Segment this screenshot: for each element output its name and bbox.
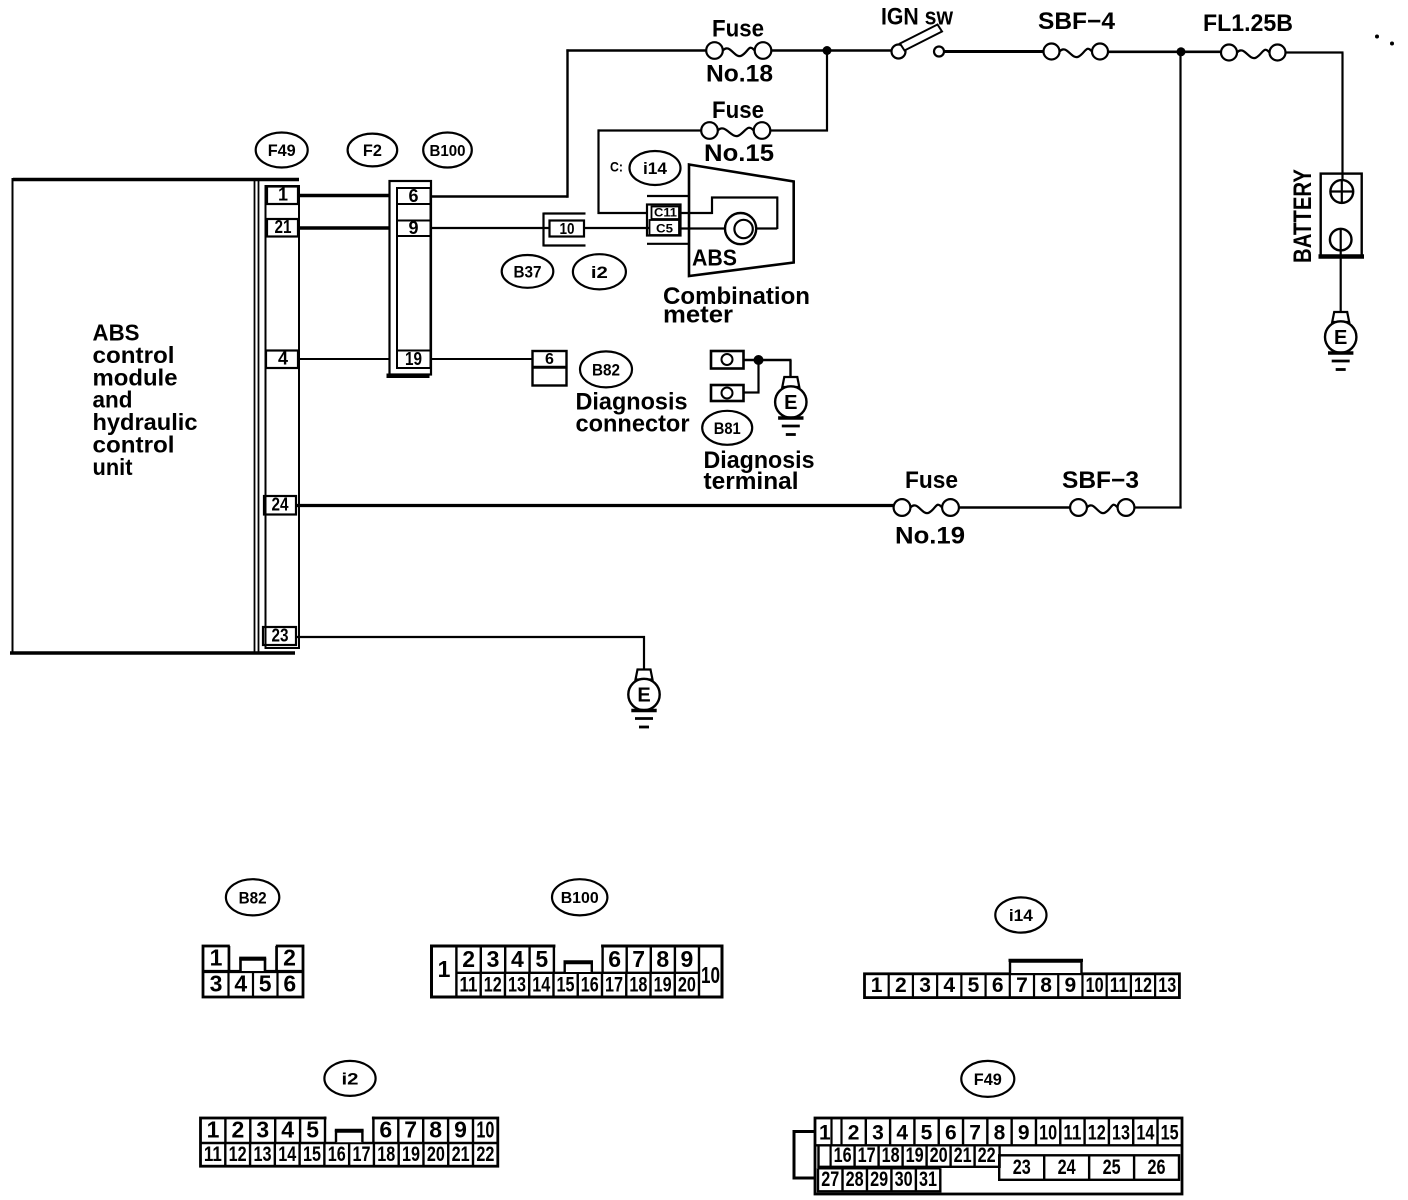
wire FL1.25B to battery xyxy=(1286,53,1344,181)
svg-text:9: 9 xyxy=(454,1117,467,1143)
connector label B37 xyxy=(502,255,554,288)
svg-text:2: 2 xyxy=(848,1122,860,1145)
svg-text:Fuse: Fuse xyxy=(712,16,764,43)
wire diagnosis terminal to ground xyxy=(744,360,792,394)
svg-text:terminal: terminal xyxy=(704,468,799,495)
svg-text:No.18: No.18 xyxy=(706,61,773,88)
connector label B82 (pinout) xyxy=(226,879,279,915)
svg-text:16: 16 xyxy=(834,1144,852,1167)
svg-text:7: 7 xyxy=(632,946,645,972)
svg-text:unit: unit xyxy=(93,454,133,480)
svg-text:22: 22 xyxy=(978,1144,996,1167)
svg-text:F49: F49 xyxy=(974,1070,1002,1089)
svg-text:23: 23 xyxy=(1013,1156,1031,1179)
svg-text:12: 12 xyxy=(484,974,502,997)
connector label i2 (joint) xyxy=(573,254,626,289)
svg-text:10: 10 xyxy=(1086,974,1104,997)
svg-text:connector: connector xyxy=(576,411,690,438)
meter connector box C11/C5 xyxy=(647,205,681,236)
svg-text:3: 3 xyxy=(256,1117,269,1143)
connector label B100 xyxy=(423,133,472,168)
pin 1 (F49) xyxy=(267,185,298,205)
ABS warning lamp xyxy=(725,213,756,244)
svg-text:5: 5 xyxy=(306,1117,319,1143)
pin 4 (F49) xyxy=(266,349,298,369)
svg-text:20: 20 xyxy=(427,1143,445,1166)
svg-text:11: 11 xyxy=(1063,1122,1081,1145)
svg-text:20: 20 xyxy=(678,974,696,997)
connector label B81 xyxy=(702,411,752,445)
label Fuse No.19 xyxy=(895,467,965,550)
svg-text:12: 12 xyxy=(1088,1122,1106,1145)
svg-text:13: 13 xyxy=(253,1143,271,1166)
svg-text:8: 8 xyxy=(656,946,669,972)
wire fuse19 to SBF-3 xyxy=(959,506,1072,508)
svg-text:8: 8 xyxy=(1040,974,1052,997)
svg-text:2: 2 xyxy=(895,974,907,997)
fuse FL1.25B symbol xyxy=(1221,45,1286,61)
svg-text:5: 5 xyxy=(259,971,272,997)
svg-text:1: 1 xyxy=(438,956,451,982)
label Combination meter xyxy=(663,283,810,329)
svg-text:20: 20 xyxy=(930,1144,948,1167)
svg-text:6: 6 xyxy=(945,1122,957,1145)
svg-text:8: 8 xyxy=(429,1117,442,1143)
connector label F49 xyxy=(256,133,308,168)
wire B100 pin6 to top line xyxy=(431,49,568,197)
ABS control module and hydraulic control unit box xyxy=(10,178,299,654)
svg-text:19: 19 xyxy=(654,974,672,997)
svg-text:16: 16 xyxy=(581,974,599,997)
svg-text:21: 21 xyxy=(954,1144,972,1167)
svg-text:9: 9 xyxy=(681,946,694,972)
svg-text:24: 24 xyxy=(1058,1156,1076,1179)
svg-text:E: E xyxy=(637,685,650,707)
svg-text:6: 6 xyxy=(545,351,554,368)
svg-text:4: 4 xyxy=(896,1122,908,1145)
wire SBF-4 to FL1.25B xyxy=(1108,50,1222,53)
svg-text:C5: C5 xyxy=(656,222,673,236)
battery positive terminal xyxy=(1330,180,1353,203)
connector label B100 (pinout) xyxy=(552,879,607,915)
diagnosis terminal lower contact xyxy=(711,385,744,401)
svg-text:19: 19 xyxy=(405,349,422,369)
svg-text:13: 13 xyxy=(1158,974,1176,997)
ground E battery xyxy=(1325,312,1356,370)
wire top line left segment xyxy=(566,49,706,52)
svg-text:11: 11 xyxy=(1110,974,1128,997)
svg-text:SBF−4: SBF−4 xyxy=(1038,8,1116,35)
fuse No.19 symbol xyxy=(894,499,959,516)
connector label F2 xyxy=(348,134,398,167)
connector F49 strip xyxy=(266,186,300,648)
IGN switch xyxy=(892,25,945,59)
svg-text:11: 11 xyxy=(204,1143,222,1166)
ABS control module text xyxy=(93,320,198,480)
svg-text:E: E xyxy=(1334,327,1347,349)
svg-text:7: 7 xyxy=(969,1122,981,1145)
svg-text:8: 8 xyxy=(994,1122,1006,1145)
svg-text:9: 9 xyxy=(408,218,418,238)
battery box xyxy=(1319,174,1365,258)
svg-text:13: 13 xyxy=(508,974,526,997)
svg-text:15: 15 xyxy=(303,1143,321,1166)
fuse No.18 symbol xyxy=(706,42,771,59)
svg-text:18: 18 xyxy=(882,1144,900,1167)
svg-text:C:: C: xyxy=(610,159,623,175)
svg-text:22: 22 xyxy=(476,1143,494,1166)
svg-text:4: 4 xyxy=(278,349,288,369)
wire F49 pin21 to B100 pin9 xyxy=(298,226,390,229)
label Fuse No.18 xyxy=(706,16,773,88)
svg-text:4: 4 xyxy=(511,946,524,972)
combination meter body xyxy=(689,165,794,277)
connector B82 pinout xyxy=(203,944,303,997)
svg-text:14: 14 xyxy=(1136,1122,1154,1145)
svg-text:13: 13 xyxy=(1112,1122,1130,1145)
svg-text:1: 1 xyxy=(207,1117,220,1143)
svg-text:10: 10 xyxy=(476,1117,494,1143)
ground E module xyxy=(628,670,659,728)
connector label i14 (pinout) xyxy=(995,897,1046,932)
svg-text:2: 2 xyxy=(283,945,296,971)
svg-text:16: 16 xyxy=(328,1143,346,1166)
wire C5 into meter lamp xyxy=(680,227,726,229)
diagnosis terminal upper contact xyxy=(711,351,744,369)
svg-text:14: 14 xyxy=(532,974,550,997)
wire junction down to fuse No.15 xyxy=(826,51,828,132)
svg-text:BATTERY: BATTERY xyxy=(1289,169,1317,263)
wire fuse15 to meter C11 xyxy=(598,129,703,214)
svg-text:C11: C11 xyxy=(654,206,677,220)
svg-text:10: 10 xyxy=(560,221,575,238)
svg-text:25: 25 xyxy=(1103,1156,1121,1179)
svg-text:7: 7 xyxy=(404,1117,417,1143)
connector F2/B100 strip xyxy=(387,181,432,376)
svg-text:15: 15 xyxy=(557,974,575,997)
svg-text:B37: B37 xyxy=(514,263,542,282)
connector label B82 (diagram) xyxy=(580,351,632,387)
connector label i2 (pinout) xyxy=(324,1061,375,1096)
svg-text:17: 17 xyxy=(353,1143,371,1166)
label Diagnosis connector xyxy=(576,389,690,438)
svg-text:11: 11 xyxy=(460,974,478,997)
fuse SBF-4 symbol xyxy=(1044,44,1109,60)
svg-text:6: 6 xyxy=(408,186,418,206)
svg-text:3: 3 xyxy=(919,974,931,997)
svg-text:No.19: No.19 xyxy=(895,523,965,550)
svg-text:21: 21 xyxy=(275,217,292,237)
connector B100 pinout xyxy=(432,946,723,997)
svg-text:6: 6 xyxy=(283,971,296,997)
svg-text:Fuse: Fuse xyxy=(712,97,764,124)
joint box 10 shroud xyxy=(544,213,586,247)
junction node main feed xyxy=(1177,47,1186,56)
ground E diagnosis terminal xyxy=(775,377,806,435)
svg-text:IGN sw: IGN sw xyxy=(881,4,953,31)
svg-text:FL1.25B: FL1.25B xyxy=(1203,10,1293,37)
wire C11 into meter lamp circuit xyxy=(680,197,778,230)
svg-text:21: 21 xyxy=(452,1143,470,1166)
pin 23 (F49) xyxy=(263,626,296,646)
svg-text:1: 1 xyxy=(871,974,883,997)
svg-text:6: 6 xyxy=(379,1117,392,1143)
wire fuse15 right segment xyxy=(770,129,828,131)
fuse SBF-3 symbol xyxy=(1070,499,1134,516)
svg-text:meter: meter xyxy=(663,302,733,329)
svg-text:6: 6 xyxy=(992,974,1004,997)
junction node fuse18/fuse15 xyxy=(823,46,832,55)
pin 21 (F49) xyxy=(267,217,298,237)
svg-text:ABS: ABS xyxy=(692,245,737,271)
svg-text:B100: B100 xyxy=(561,890,599,907)
wire F49 pin4 to B100 pin19 xyxy=(298,358,390,360)
svg-text:15: 15 xyxy=(1161,1122,1179,1145)
svg-text:E: E xyxy=(784,392,797,414)
wire B100 pin9 to joint 10 xyxy=(431,227,551,229)
connector label F49 (pinout) xyxy=(961,1061,1014,1097)
svg-text:12: 12 xyxy=(1134,974,1152,997)
svg-text:1: 1 xyxy=(210,945,223,971)
svg-text:19: 19 xyxy=(402,1143,420,1166)
label Fuse No.15 xyxy=(704,97,774,167)
svg-text:SBF−3: SBF−3 xyxy=(1062,467,1139,494)
svg-text:26: 26 xyxy=(1148,1156,1166,1179)
svg-text:10: 10 xyxy=(1039,1122,1057,1145)
svg-text:4: 4 xyxy=(943,974,955,997)
connector F49 pinout xyxy=(815,1118,1182,1194)
svg-text:Fuse: Fuse xyxy=(905,467,958,494)
svg-text:17: 17 xyxy=(858,1144,876,1167)
wire F49 pin23 to ground xyxy=(296,636,645,670)
label Diagnosis terminal xyxy=(704,447,815,495)
svg-text:4: 4 xyxy=(234,971,247,997)
svg-text:5: 5 xyxy=(535,946,548,972)
diagnosis connector box pin 6 xyxy=(533,351,567,386)
svg-text:30: 30 xyxy=(895,1168,913,1191)
connector F49 pinout left bracket xyxy=(794,1132,816,1179)
svg-text:12: 12 xyxy=(229,1143,247,1166)
wire IGN switch to SBF-4 xyxy=(944,50,1044,53)
svg-text:7: 7 xyxy=(1016,974,1028,997)
pin 24 (F49) xyxy=(264,495,296,515)
svg-text:9: 9 xyxy=(1065,974,1077,997)
svg-text:9: 9 xyxy=(1018,1122,1030,1145)
connector i14 pinout xyxy=(865,974,1180,998)
fuse No.15 symbol xyxy=(701,122,770,139)
wire battery to ground xyxy=(1340,250,1342,313)
svg-text:i2: i2 xyxy=(591,263,608,282)
svg-text:B82: B82 xyxy=(592,361,620,380)
connector F49 pinout row 16-22 xyxy=(819,1144,1000,1167)
svg-text:F2: F2 xyxy=(363,141,382,160)
wire joint 10 to meter C5 xyxy=(584,227,650,229)
svg-text:27: 27 xyxy=(821,1168,839,1191)
svg-text:1: 1 xyxy=(278,185,288,205)
wire SBF-3 to main feed node xyxy=(1134,51,1182,509)
svg-text:i14: i14 xyxy=(643,159,668,178)
svg-text:24: 24 xyxy=(272,495,289,515)
battery negative terminal xyxy=(1330,229,1352,251)
connector label i14 (meter) xyxy=(630,151,681,185)
svg-text:1: 1 xyxy=(819,1122,831,1145)
svg-text:2: 2 xyxy=(232,1117,245,1143)
svg-text:3: 3 xyxy=(487,946,500,972)
svg-text:5: 5 xyxy=(921,1122,933,1145)
svg-text:23: 23 xyxy=(272,626,289,646)
svg-text:18: 18 xyxy=(377,1143,395,1166)
svg-text:18: 18 xyxy=(629,974,647,997)
wire B100 pin19 to diagnosis connector xyxy=(431,358,534,360)
svg-text:No.15: No.15 xyxy=(704,140,774,167)
svg-text:i2: i2 xyxy=(342,1070,359,1089)
svg-text:2: 2 xyxy=(462,946,475,972)
svg-text:B82: B82 xyxy=(239,888,267,907)
svg-text:4: 4 xyxy=(281,1117,294,1143)
junction node diagnosis terminal xyxy=(754,355,764,365)
svg-text:3: 3 xyxy=(872,1122,884,1145)
svg-text:i14: i14 xyxy=(1009,906,1034,925)
svg-text:6: 6 xyxy=(608,946,621,972)
svg-text:28: 28 xyxy=(846,1168,864,1191)
svg-text:3: 3 xyxy=(210,971,223,997)
connector i2 pinout xyxy=(201,1115,498,1166)
connector F49 pinout cells 23-26 xyxy=(999,1155,1179,1180)
svg-text:17: 17 xyxy=(605,974,623,997)
svg-text:29: 29 xyxy=(870,1168,888,1191)
wire F49 pin1 to B100 pin6 xyxy=(298,194,390,197)
svg-text:F49: F49 xyxy=(268,141,296,160)
svg-text:B100: B100 xyxy=(430,143,466,160)
connector F49 pinout row 27-31 xyxy=(818,1168,940,1191)
svg-text:31: 31 xyxy=(919,1168,937,1191)
svg-text:B81: B81 xyxy=(714,419,741,438)
wire F49 pin24 to fuse No.19 xyxy=(296,504,894,507)
noise dots top right xyxy=(1375,35,1394,46)
wire fuse18 to IGN switch xyxy=(771,49,892,52)
svg-text:10: 10 xyxy=(701,962,720,988)
svg-text:14: 14 xyxy=(278,1143,296,1166)
meter connector shroud lines xyxy=(647,196,690,244)
svg-text:19: 19 xyxy=(906,1144,924,1167)
joint box pin 10 xyxy=(550,221,585,239)
svg-text:5: 5 xyxy=(968,974,980,997)
